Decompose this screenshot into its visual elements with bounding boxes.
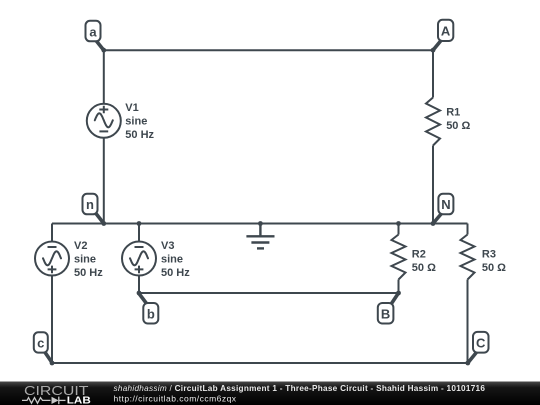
wire V3 column <box>138 224 140 294</box>
node N <box>433 194 453 224</box>
node b <box>139 293 159 324</box>
svg-text:sine: sine <box>161 254 183 266</box>
svg-text:50 Hz: 50 Hz <box>125 129 154 141</box>
node B <box>378 293 399 324</box>
svg-text:V2: V2 <box>74 240 87 252</box>
footer text <box>114 384 486 403</box>
svg-text:A: A <box>441 24 451 39</box>
resistor R1 <box>426 98 440 146</box>
wire b-B row <box>139 292 399 294</box>
svg-text:50 Hz: 50 Hz <box>161 267 190 279</box>
resistor R2 <box>392 235 406 280</box>
svg-text:LAB: LAB <box>67 396 91 405</box>
logo wire resistor diode LAB <box>22 397 66 405</box>
node a <box>86 21 104 50</box>
wire top a-A <box>104 49 433 51</box>
svg-text:sine: sine <box>74 254 96 266</box>
wire bottom c-C row <box>52 362 468 364</box>
svg-text:R2: R2 <box>412 249 426 261</box>
wire left column a to n <box>103 50 105 223</box>
voltage source V2 <box>35 242 69 276</box>
wire n-N row <box>52 223 468 225</box>
svg-text:shahidhassim / CircuitLab Assi: shahidhassim / CircuitLab Assignment 1 -… <box>114 384 486 393</box>
wire R1 column top lead <box>432 50 434 97</box>
svg-text:50 Hz: 50 Hz <box>74 267 103 279</box>
wire R2 top lead <box>398 224 400 235</box>
node c <box>34 332 53 363</box>
label V1 sine 50 Hz <box>125 102 154 141</box>
ground <box>246 224 274 249</box>
svg-text:a: a <box>89 24 97 39</box>
wire V2 column <box>51 224 53 364</box>
wire R3 top lead <box>467 224 469 235</box>
svg-text:http://circuitlab.com/ccm6zqx: http://circuitlab.com/ccm6zqx <box>114 393 237 403</box>
wire R1 bottom lead to N <box>432 146 434 224</box>
node C <box>468 332 489 363</box>
svg-text:sine: sine <box>125 115 147 127</box>
logo CIRCUIT <box>24 383 89 398</box>
label R2 50 ohm <box>412 249 436 275</box>
svg-text:50 Ω: 50 Ω <box>482 262 506 274</box>
svg-text:V1: V1 <box>125 102 138 114</box>
wire R3 bottom lead to C <box>467 280 469 364</box>
voltage source V3 <box>122 242 156 276</box>
label V3 sine 50 Hz <box>161 240 190 279</box>
label R1 50 ohm <box>446 106 470 132</box>
svg-text:50 Ω: 50 Ω <box>412 262 436 274</box>
wire R2 bottom lead <box>398 280 400 294</box>
svg-text:n: n <box>86 197 94 212</box>
label R3 50 ohm <box>482 249 506 275</box>
svg-text:V3: V3 <box>161 240 174 252</box>
svg-text:c: c <box>37 336 44 351</box>
voltage source V1 <box>87 104 121 138</box>
svg-text:C: C <box>476 336 486 351</box>
svg-text:50 Ω: 50 Ω <box>446 120 470 132</box>
label V2 sine 50 Hz <box>74 240 103 279</box>
resistor R3 <box>461 235 475 280</box>
svg-text:B: B <box>381 306 390 321</box>
node A <box>433 20 453 50</box>
svg-text:R3: R3 <box>482 249 496 261</box>
footer bar <box>0 382 540 405</box>
node n <box>83 194 104 224</box>
svg-text:N: N <box>441 197 450 212</box>
svg-text:R1: R1 <box>446 106 460 118</box>
svg-text:b: b <box>147 306 155 321</box>
